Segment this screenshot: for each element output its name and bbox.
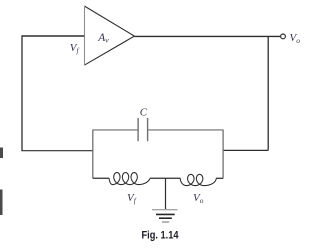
wire: left mid tap horizontal: [21, 150, 92, 152]
wire: right feedback vertical: [267, 36, 269, 150]
inductor L1 (left coil, 3 loops): [109, 173, 150, 185]
capacitor C (top branch): [93, 118, 223, 141]
wire: tank box right side: [222, 130, 224, 179]
wire: bottom rail between coils: [150, 177, 181, 179]
svg-text:C: C: [140, 107, 148, 119]
node Vo output terminal (open circle): [281, 34, 286, 39]
wire: right mid tap horizontal: [223, 149, 268, 151]
wire: ground stem: [165, 178, 167, 209]
wire: bottom rail left of coil: [93, 177, 109, 179]
ground: [152, 210, 178, 222]
svg-text:Fig. 1.14: Fig. 1.14: [142, 229, 179, 241]
wire: bottom rail right of coil: [216, 177, 223, 179]
scan artifact blob (left edge upper): [0, 148, 3, 159]
wire: amplifier output (horizontal, top-right): [134, 35, 280, 37]
inductor L2 (right coil, 2 loops): [180, 174, 216, 185]
wire: amplifier input (horizontal, top-left): [21, 35, 84, 37]
scan artifact blob (left edge lower): [0, 190, 3, 216]
op-amp U1 (amplifier triangle): [84, 6, 134, 66]
wire: left feedback vertical: [21, 36, 23, 151]
wire: tank box left side: [92, 130, 94, 179]
